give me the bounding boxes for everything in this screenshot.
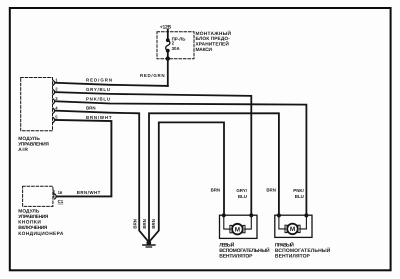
svg-text:BRN/WHT: BRN/WHT [86, 115, 112, 120]
wire PNK/BLU pin3 to right fan [56, 101, 307, 215]
svg-text:GRY/: GRY/ [236, 188, 247, 193]
svg-text:BRN: BRN [266, 188, 276, 193]
left fan motor brushes [230, 225, 245, 232]
wire GRY/BLU pin2 to left fan [56, 92, 252, 215]
svg-text:4: 4 [55, 105, 58, 110]
svg-text:КНОПКИ: КНОПКИ [18, 219, 41, 225]
svg-text:16: 16 [58, 190, 63, 195]
svg-text:BRN: BRN [151, 219, 156, 229]
svg-text:BRN: BRN [86, 106, 96, 111]
svg-text:30А: 30А [172, 46, 181, 51]
wire BRN bus right fan to ground [149, 113, 279, 243]
svg-text:5: 5 [55, 115, 58, 120]
node +12V supply label [160, 24, 172, 30]
right fan internal wiring [279, 215, 307, 229]
ground G1 symbol [143, 241, 155, 248]
svg-text:МОНТАЖНЫЙ: МОНТАЖНЫЙ [196, 30, 232, 37]
pin 16 connector [54, 190, 63, 199]
module AIR control dashed box [21, 78, 53, 131]
label GRY/BLU left fan [236, 188, 247, 199]
svg-text:BRN: BRN [142, 219, 147, 229]
wire BRN pin4 to ground [56, 111, 148, 241]
label BRN pin4 [86, 106, 96, 111]
svg-text:2: 2 [55, 87, 58, 92]
left fan terminal junction dots [222, 213, 254, 217]
svg-text:RED/GRN: RED/GRN [86, 78, 112, 83]
svg-text:C1: C1 [58, 199, 64, 204]
left fan motor M circle [232, 224, 243, 235]
svg-text:PNK/: PNK/ [293, 188, 304, 193]
svg-text:1: 1 [55, 77, 58, 82]
wire from +12V into fuse [167, 30, 169, 40]
svg-text:BLU: BLU [238, 194, 247, 199]
svg-text:ВЕНТИЛЯТОР: ВЕНТИЛЯТОР [219, 253, 253, 259]
svg-text:PNK/BLU: PNK/BLU [86, 96, 110, 101]
label BRN/WHT pin5 [86, 115, 112, 120]
svg-text:BRN: BRN [211, 188, 221, 193]
fuse F ПР-ЛЬ 2 30А element symbol [166, 38, 170, 52]
junction terminal dot at fuse box bottom [166, 56, 170, 60]
svg-text:BRN/WHT: BRN/WHT [77, 190, 101, 195]
svg-text:+12В: +12В [160, 24, 172, 30]
A/C module name МОДУЛЬ УПРАВЛЕНИЯ КНОПКИ ВКЛЮЧЕНИЯ КОНДИЦИОНЕРА [18, 209, 64, 237]
A/C switch module dashed box [23, 186, 53, 206]
svg-text:RED/GRN: RED/GRN [140, 73, 165, 78]
pin 2 connector [53, 87, 58, 95]
pin 5 connector [53, 115, 58, 123]
wire fuse to box terminal [167, 51, 169, 59]
svg-text:КОНДИЦИОНЕРА: КОНДИЦИОНЕРА [18, 231, 64, 237]
label BRN rotated (right wire) [151, 219, 156, 229]
module AIR name МОДУЛЬ УПРАВЛЕНИЯ AIR [18, 136, 49, 153]
wire BRN bus left fan to ground [150, 122, 224, 240]
label BRN rotated (pin4 wire) [133, 219, 138, 229]
svg-text:МАКСИ: МАКСИ [196, 47, 213, 53]
right fan motor M circle [287, 224, 298, 235]
wire BRN/WHT pin5 down to pin16 [56, 120, 112, 196]
svg-text:УПРАВЛЕНИЯ: УПРАВЛЕНИЯ [18, 142, 49, 148]
label BRN right fan [266, 188, 276, 193]
svg-text:УПРАВЛЕНИЯ: УПРАВЛЕНИЯ [18, 214, 49, 220]
label RED/GRN pin1 [86, 78, 112, 83]
wire RED/GRN vertical from fuse down [167, 59, 169, 86]
right fan outer box [275, 215, 312, 237]
svg-text:МОДУЛЬ: МОДУЛЬ [18, 136, 40, 142]
right fan name ПРАВЫЙ ВСПОМОГАТЕЛЬНЫЙ ВЕНТИЛЯТОР [275, 242, 331, 260]
svg-text:AIR: AIR [18, 147, 28, 153]
svg-text:M: M [235, 226, 240, 233]
wire RED/GRN pin1 horizontal [56, 83, 168, 86]
pin 3 connector [53, 96, 58, 104]
fuse block name МОНТАЖНЫЙ БЛОК ПРЕДОХРАНИТЕЛЕЙ МАКСИ [196, 30, 232, 53]
svg-text:ВКЛЮЧЕНИЯ: ВКЛЮЧЕНИЯ [18, 225, 48, 231]
svg-text:ВЕНТИЛЯТОР: ВЕНТИЛЯТОР [275, 253, 311, 259]
fuse box (maxi fuse block) dashed outline [157, 32, 194, 59]
connector C1 label [58, 199, 64, 204]
svg-text:GRY/BLU: GRY/BLU [86, 87, 110, 92]
fuse value label ПР-ЛЬ 2 30А [172, 37, 186, 51]
right fan motor brushes [285, 225, 300, 232]
label PNK/BLU pin3 [86, 96, 110, 101]
pin 1 connector [53, 77, 58, 85]
pin 4 connector [53, 105, 58, 113]
label PNK/BLU right fan [293, 188, 304, 199]
left fan name ЛЕВЫЙ ВСПОМОГАТЕЛЬНЫЙ ВЕНТИЛЯТОР [219, 242, 270, 260]
label BRN left fan [211, 188, 221, 193]
svg-text:BLU: BLU [295, 194, 304, 199]
label BRN rotated (middle wire) [142, 219, 147, 229]
svg-text:ХРАНИТЕЛЕЙ: ХРАНИТЕЛЕЙ [196, 41, 230, 48]
left fan internal wiring [224, 215, 252, 229]
right fan terminal junction dots [277, 213, 309, 217]
label RED/GRN (on vertical feed) [140, 73, 165, 78]
svg-text:МОДУЛЬ: МОДУЛЬ [18, 209, 40, 215]
svg-text:БЛОК ПРЕДО-: БЛОК ПРЕДО- [196, 36, 231, 42]
label BRN/WHT pin16 [77, 190, 101, 195]
svg-text:BRN: BRN [133, 219, 138, 229]
label GRY/BLU pin2 [86, 87, 110, 92]
svg-text:3: 3 [55, 96, 58, 101]
svg-text:M: M [290, 226, 295, 233]
left fan outer box [220, 215, 258, 238]
